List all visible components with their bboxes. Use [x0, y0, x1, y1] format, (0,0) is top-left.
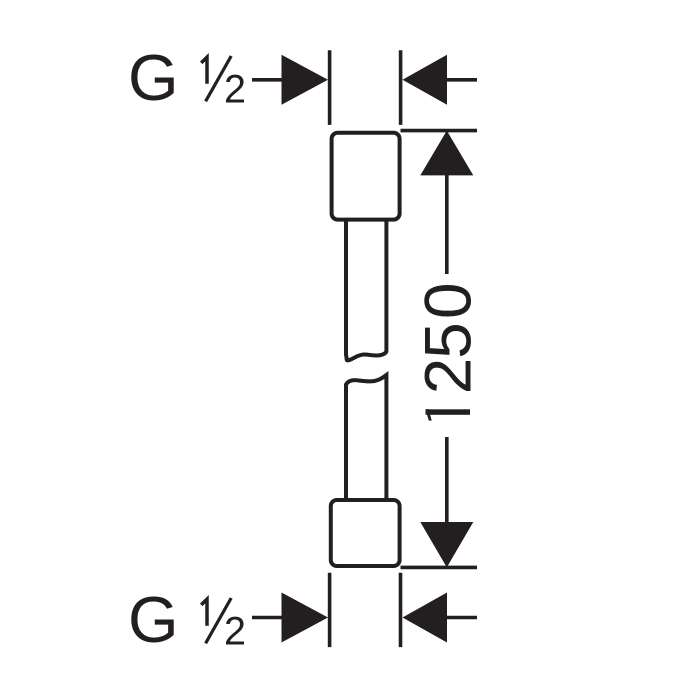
- dimension line top-left: [252, 78, 292, 82]
- dimension line 1250 lower: [445, 437, 449, 523]
- dimension line bottom-right: [442, 616, 477, 620]
- svg-text:2: 2: [224, 67, 246, 111]
- extension line right bottom: [401, 566, 478, 570]
- svg-text:G: G: [128, 41, 179, 114]
- extension line right top: [401, 129, 478, 133]
- svg-text:G: G: [128, 583, 179, 656]
- fraction numerator 1 bottom: [201, 599, 207, 626]
- dimension line 1250 upper: [445, 174, 449, 274]
- svg-text:5: 5: [411, 322, 485, 359]
- svg-text:2: 2: [411, 358, 485, 395]
- fraction slash bottom: [206, 598, 232, 643]
- arrowhead top-left: [282, 55, 329, 105]
- extension tick top-left: [328, 50, 332, 125]
- arrowhead up (1250 dimension): [420, 131, 473, 176]
- svg-text:0: 0: [411, 282, 485, 319]
- hose connector top: [332, 133, 400, 220]
- extension tick bottom-left: [328, 573, 332, 647]
- dimension value digit 1: [426, 409, 471, 420]
- hose tube upper segment: [346, 219, 386, 360]
- dimension value 1250 digits 2,5,0: [411, 282, 485, 394]
- arrowhead bottom-left: [282, 593, 329, 643]
- label G 1/2 top: [128, 41, 246, 114]
- arrowhead down (1250 dimension): [420, 522, 473, 567]
- dimension line top-right: [442, 78, 477, 82]
- arrowhead bottom-right: [403, 593, 448, 643]
- label G 1/2 bottom: [128, 583, 246, 656]
- fraction slash top: [206, 56, 232, 101]
- extension tick top-right: [399, 50, 403, 125]
- dimension line bottom-left: [252, 616, 292, 620]
- hose connector bottom: [331, 500, 400, 566]
- arrowhead top-right: [403, 55, 448, 105]
- svg-text:2: 2: [224, 609, 246, 653]
- hose tube lower segment: [346, 375, 386, 500]
- extension tick bottom-right: [399, 573, 403, 647]
- fraction numerator 1 top: [201, 57, 207, 84]
